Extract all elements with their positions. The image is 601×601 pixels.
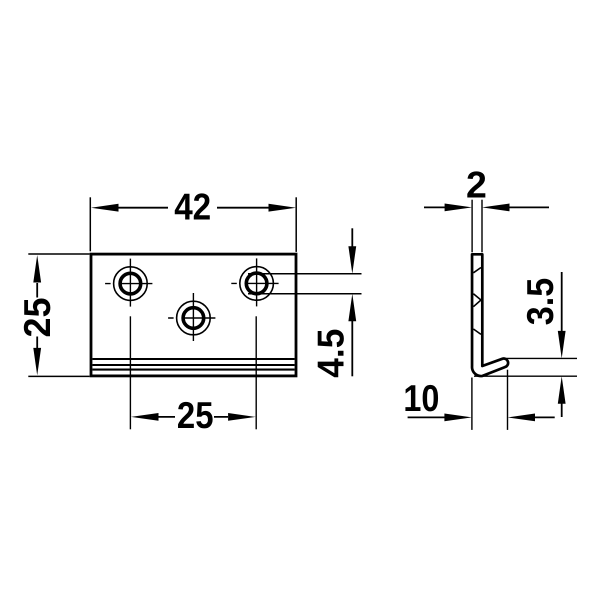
hole middle: bore ring bbox=[183, 308, 204, 329]
hole right: centerline horizontal bbox=[231, 282, 278, 284]
svg-text:10: 10 bbox=[403, 377, 439, 419]
dim 2: left dimension line bbox=[424, 206, 445, 208]
dim 10: right arrowhead bbox=[508, 414, 536, 422]
bend fold line 2 bbox=[92, 364, 294, 366]
dim 25 left: bottom arrowhead bbox=[33, 348, 41, 376]
dim 4.5: lower arrowhead (up) bbox=[348, 294, 356, 322]
dim 3.5: bottom extension line bbox=[474, 375, 577, 377]
hole middle: centerline horizontal bbox=[168, 317, 215, 319]
dim 2: right dimension line bbox=[509, 206, 549, 208]
dim 10: left arrowhead bbox=[444, 414, 472, 422]
bend fold line 1 bbox=[92, 358, 294, 360]
dim 2: left extension line bbox=[471, 200, 473, 253]
dim 2: left arrowhead bbox=[445, 204, 473, 212]
svg-text:25: 25 bbox=[177, 394, 214, 436]
dim 25 bottom: dimension line bbox=[159, 416, 229, 418]
dim 25 bottom: left extension line (from left hole) bbox=[129, 316, 131, 429]
dim 25 left: bottom extension line bbox=[28, 375, 89, 377]
dim 4.5: upper arrowhead (down) bbox=[348, 246, 356, 274]
hole right: centerline vertical bbox=[256, 258, 258, 306]
L-profile side view body bbox=[472, 254, 508, 376]
svg-text:4.5: 4.5 bbox=[310, 329, 352, 378]
dim 42: left arrowhead bbox=[91, 204, 119, 212]
dim 42: left extension line bbox=[89, 197, 91, 251]
hole edge line upper bbox=[248, 273, 362, 275]
hole right: bore ring bbox=[246, 273, 267, 294]
dim 42: right extension line bbox=[295, 197, 297, 252]
dim 3.5: lower dimension line bbox=[561, 403, 563, 417]
svg-text:2: 2 bbox=[466, 164, 487, 206]
hole left: outer countersink circle bbox=[114, 267, 148, 301]
dim 42: right arrowhead bbox=[269, 204, 297, 212]
dim 25 left: top arrowhead bbox=[33, 255, 41, 283]
section hatch stroke 1 bbox=[473, 268, 481, 273]
hole right: outer countersink circle bbox=[240, 267, 274, 301]
dim 3.5: lower arrowhead (up) bbox=[558, 376, 566, 404]
section hatch stroke 3 bbox=[473, 329, 481, 334]
dim 25 bottom: left arrowhead bbox=[131, 413, 159, 421]
dim 3.5: upper dimension line bbox=[561, 272, 563, 332]
dim 4.5: lower dimension line bbox=[351, 321, 353, 377]
hole middle: centerline vertical bbox=[192, 293, 194, 341]
dim 10: right extension line bbox=[507, 370, 509, 430]
dim 25 bottom: right arrowhead bbox=[228, 413, 256, 421]
section hatch zigzag 2 bbox=[473, 294, 481, 307]
dim 10: right dimension line bbox=[535, 416, 555, 418]
dim 2: right arrowhead bbox=[482, 204, 510, 212]
hole left: centerline vertical bbox=[129, 259, 131, 307]
hole middle: outer countersink circle bbox=[177, 301, 211, 335]
dim 2: right extension line bbox=[481, 200, 483, 253]
dim 42: dimension line bbox=[119, 207, 269, 209]
dim 4.5: upper dimension line bbox=[351, 228, 353, 247]
hole edge line lower bbox=[248, 293, 362, 295]
hole left: bore ring bbox=[120, 273, 141, 294]
dim 3.5: top extension line bbox=[504, 357, 577, 359]
dim 25 left: dimension line bbox=[36, 283, 38, 349]
dim 10: left dimension line bbox=[408, 416, 445, 418]
bend fold line 3 bbox=[92, 369, 294, 371]
svg-text:25: 25 bbox=[16, 298, 58, 338]
dim 25 bottom: right extension line (from right hole) bbox=[255, 316, 257, 429]
svg-text:3.5: 3.5 bbox=[519, 278, 561, 326]
bracket plate front view outline bbox=[91, 254, 296, 376]
dim 10: left extension line bbox=[471, 378, 473, 430]
dim 3.5: upper arrowhead (down) bbox=[558, 331, 566, 359]
svg-text:42: 42 bbox=[174, 186, 211, 228]
hole left: centerline horizontal bbox=[105, 283, 152, 285]
dim 25 left: top extension line bbox=[28, 253, 89, 255]
